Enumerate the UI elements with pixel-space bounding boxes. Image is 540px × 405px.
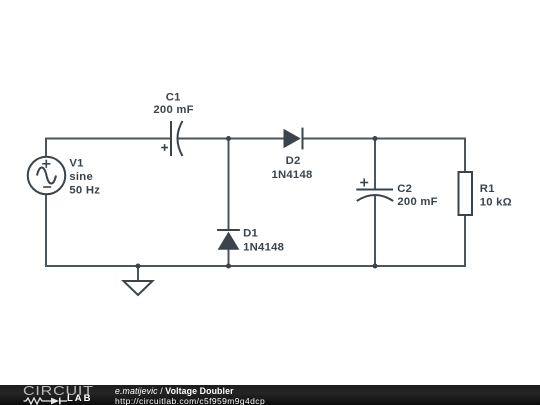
svg-text:V1: V1	[69, 157, 83, 169]
capacitor C1	[161, 121, 182, 156]
voltage source V1	[28, 157, 66, 195]
C1 labels	[153, 91, 193, 116]
wire D1 branch lower	[228, 250, 230, 267]
wire ground stem	[137, 266, 139, 281]
svg-text:D1: D1	[243, 228, 258, 240]
node junction top D1	[226, 136, 231, 141]
node junction top C2	[373, 136, 378, 141]
capacitor C2	[356, 179, 393, 202]
credit line 2	[115, 396, 265, 405]
svg-text:10 kΩ: 10 kΩ	[480, 197, 512, 209]
svg-text:1N4148: 1N4148	[243, 241, 284, 253]
svg-text:C1: C1	[166, 91, 181, 103]
logo resistor+diode row	[23, 397, 68, 405]
svg-text:200 mF: 200 mF	[397, 196, 437, 208]
node junction bottom C2	[373, 264, 378, 269]
svg-text:R1: R1	[480, 183, 495, 195]
wire top-right horizontal	[303, 138, 466, 140]
D2 labels	[271, 155, 312, 181]
D1 labels	[243, 228, 284, 254]
diode D1	[217, 230, 240, 250]
wire C2 branch upper	[374, 139, 376, 190]
wire left vertical above V1	[45, 138, 47, 158]
svg-text:1N4148: 1N4148	[271, 169, 312, 181]
node junction ground	[136, 264, 141, 269]
footer bar	[0, 385, 540, 405]
wire C2 branch lower	[374, 196, 376, 267]
wire top-left horizontal	[46, 138, 171, 140]
wire top-middle horizontal	[178, 138, 284, 140]
CircuitLab logo wordmark	[23, 384, 94, 398]
R1 labels	[480, 183, 512, 209]
ground	[124, 281, 153, 295]
svg-text:200 mF: 200 mF	[153, 104, 193, 116]
svg-text:C2: C2	[397, 183, 412, 195]
svg-text:50 Hz: 50 Hz	[69, 184, 100, 196]
svg-text:sine: sine	[69, 171, 93, 183]
V1 labels	[69, 157, 100, 196]
wire bottom horizontal	[45, 265, 466, 267]
node junction bottom D1	[226, 264, 231, 269]
logo LAB text	[67, 393, 93, 404]
svg-text:D2: D2	[286, 155, 301, 167]
wire D1 branch upper	[228, 139, 230, 231]
credit line 1	[115, 386, 234, 396]
wire right vertical above R1	[464, 138, 466, 173]
wire left vertical below V1	[45, 194, 47, 267]
wire right vertical below R1	[464, 215, 466, 267]
diode D2	[284, 128, 303, 150]
C2 labels	[397, 183, 438, 208]
resistor R1	[459, 172, 473, 215]
